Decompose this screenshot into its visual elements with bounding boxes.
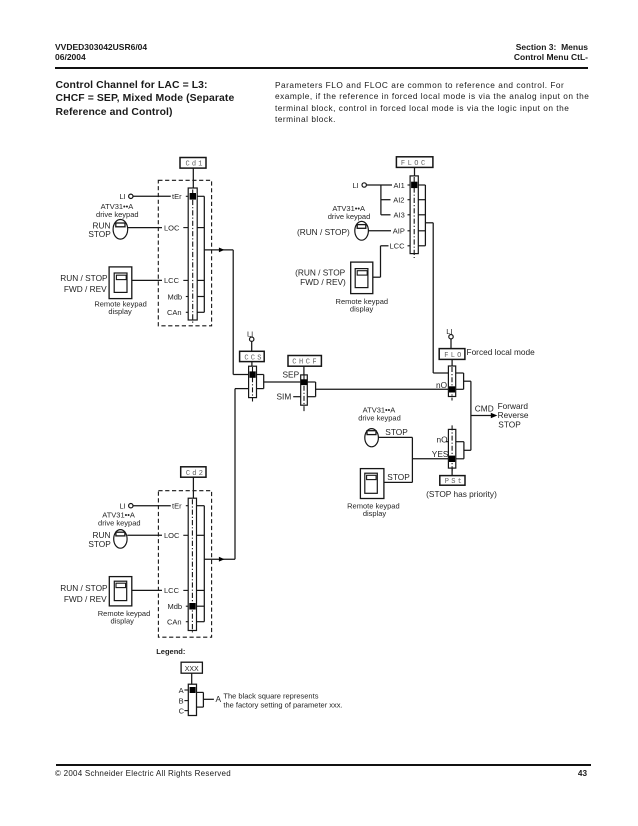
svg-text:A: A [216,694,222,704]
svg-text:CAn: CAn [167,308,182,317]
svg-text:the factory setting of paramet: the factory setting of parameter xxx. [223,700,342,709]
body paragraph [275,80,605,125]
svg-text:C: C [179,706,185,715]
svg-text:FLO: FLO [444,352,463,360]
factory setting square FLO nO [449,386,455,392]
pin LCC (Cd2) [164,586,180,595]
svg-text:SIM: SIM [277,392,292,402]
pin AI3 [394,211,411,220]
svg-text:FWD / REV: FWD / REV [64,284,107,294]
output bracket PSt [456,442,464,459]
parameter box XXX [181,662,202,673]
wire PSt output to CMD node [464,416,471,451]
wire keypad to LOC [128,227,189,229]
wire FLOC box to selector [414,167,416,177]
footer left [55,769,231,778]
remote keypad display icon (Cd1) [109,267,132,299]
label ATV31 keypad (STOP) [358,406,401,423]
svg-text:display: display [108,307,132,316]
svg-text:(RUN / STOP: (RUN / STOP [295,268,346,278]
wire LI to CCS box [251,341,253,351]
svg-text:tEr: tEr [172,192,182,201]
svg-text:AI2: AI2 [393,196,404,205]
pin AIP [393,227,410,236]
wire FLOC output down to FLO [425,223,448,373]
parameter box Cd2 [181,467,206,478]
label remote keypad display (STOP) [347,502,400,519]
pin YES [432,449,449,459]
svg-text:drive keypad: drive keypad [358,413,401,422]
selector switch Cd2 [188,498,196,634]
wire Cd2 output up to CCS [204,557,235,562]
drive keypad icon (Cd1) [113,220,128,240]
svg-text:STOP: STOP [88,229,111,239]
svg-text:Mdb: Mdb [168,292,183,301]
label RUN/STOP FWD/REV (Cd2) [60,583,108,604]
remote keypad display icon (FLOC) [351,262,373,294]
label ATV31 keypad (Cd1) [96,202,139,219]
svg-text:Cd2: Cd2 [186,470,205,478]
pin LOC (Cd2) [164,531,180,540]
svg-text:LCC: LCC [164,276,180,285]
svg-text:Legend:: Legend: [156,647,185,656]
wire remote display to LCC (FLOC) [373,246,389,277]
label Forward Reverse STOP [498,401,529,429]
svg-text:AIP: AIP [393,227,405,236]
remote keypad display icon (Cd2) [109,577,132,606]
pin LCC [164,276,180,285]
pin Mdb (Cd2) [168,602,189,611]
selector switch PSt [448,425,455,471]
svg-text:LCC: LCC [164,586,180,595]
svg-text:display: display [350,304,374,313]
node LI (Cd1) [120,192,134,201]
wire LI to tEr [133,195,188,197]
svg-text:Cd1: Cd1 [186,161,205,169]
pin AI1 [394,181,411,190]
svg-text:XXX: XXX [185,666,199,673]
wire YES input [412,458,448,460]
pin SEP [283,370,300,380]
svg-text:LOC: LOC [164,224,180,233]
output bracket FLO [456,373,464,389]
svg-text:drive keypad: drive keypad [96,210,139,219]
label RUN STOP (Cd2) [88,530,111,549]
svg-text:tEr: tEr [172,502,182,511]
svg-text:The black square represents: The black square represents [223,691,318,700]
factory setting square CCS [250,371,256,377]
selector switch FLOC [410,176,418,258]
svg-text:LI: LI [120,192,126,201]
wire CHCF box to selector [303,366,305,375]
pin B [179,696,189,705]
svg-text:LI: LI [120,502,126,511]
footer rule [56,764,591,765]
label (RUN / STOP FWD / REV) [295,268,346,288]
factory setting square FLOC AI1 [411,182,417,188]
wire LI to AI1 [367,184,393,186]
drive keypad icon (Cd2) [114,530,127,549]
svg-text:display: display [363,509,387,518]
output bracket CHCF [307,382,315,397]
pin tEr [172,192,182,201]
parameter box Cd1 [180,158,206,169]
svg-text:STOP: STOP [88,539,111,549]
wire CCS box to selector [251,362,253,367]
wire legend output to A [203,694,221,704]
label RUN STOP (Cd1) [88,221,111,240]
pin AI2 [393,196,410,205]
factory setting square legend A [190,687,196,693]
header right [388,42,588,63]
factory setting square at Mdb [189,603,195,610]
output bracket Cd2 [197,506,205,622]
wire remote display to LCC [132,279,188,281]
svg-text:A: A [179,686,184,695]
svg-text:drive keypad: drive keypad [328,212,371,221]
label ATV31 keypad (Cd2) [98,510,141,527]
pin CAn (Cd2) [167,618,188,627]
node LI (Cd2) [120,502,134,511]
svg-text:YES: YES [432,449,449,459]
wire keypad STOP to YES rail [379,437,413,482]
factory setting square at tEr [190,193,196,200]
wire selector to PSt box [451,468,453,476]
drive keypad icon (FLOC) [355,221,369,240]
wire CCS output to CHCF SEP [264,381,301,383]
label Legend [156,647,185,656]
svg-text:AI3: AI3 [394,211,405,220]
pin LOC [164,224,180,233]
footer page number [575,769,587,778]
output bracket CCS [257,375,264,389]
svg-text:display: display [111,617,135,626]
selector switch legend [188,684,196,715]
pin nO (FLO) [436,380,448,390]
svg-text:LOC: LOC [164,531,180,540]
wire Cd1 output [204,248,248,375]
label remote keypad display (Cd2) [98,609,151,625]
pin SIM [277,392,301,402]
svg-text:RUN / STOP: RUN / STOP [60,273,108,283]
label STOP (keypad) [385,427,408,437]
node LI (FLO) [446,327,453,339]
wire remote display to LCC (Cd2) [132,589,188,591]
pin C [179,706,189,715]
svg-text:drive keypad: drive keypad [98,518,141,527]
output bracket FLOC [418,185,425,246]
selector switch CHCF [301,375,308,412]
svg-text:CHCF: CHCF [292,359,319,367]
wire LI bracket to AI2 AI3 [381,185,391,215]
wire LI to FLO box [450,339,452,349]
svg-text:nO: nO [437,434,449,444]
wire remote STOP to YES rail [384,481,413,483]
pin A [179,686,189,695]
wire CCS lower input from Cd2 [235,389,249,560]
header left [55,42,147,63]
drive keypad icon (STOP) [365,429,379,447]
selector switch Cd1 [188,188,197,324]
wire keypad to LOC (Cd2) [127,534,188,536]
svg-text:STOP: STOP [498,419,521,429]
wire Cd1 box to selector [192,168,194,189]
svg-text:AI1: AI1 [394,181,405,190]
pin CAn [167,308,188,317]
remote keypad display icon (STOP) [360,469,384,499]
factory setting square CHCF SEP [301,379,307,385]
wire FLO box to selector [451,359,453,367]
svg-text:STOP: STOP [385,427,408,437]
wire Cd2 box to selector [192,477,194,499]
svg-text:SEP: SEP [283,370,300,380]
label STOP has priority [426,489,497,499]
node LI (FLOC) [353,181,367,190]
label legend text [223,691,342,709]
pin Mdb [168,292,189,301]
output bracket legend [197,692,204,707]
parameter box CCS [240,351,265,362]
svg-text:FWD / REV): FWD / REV) [300,277,346,287]
label RUN/STOP FWD/REV (Cd1) [60,273,108,294]
wire LI to tEr (Cd2) [133,505,188,507]
wire XXX box to selector [191,673,193,684]
svg-text:Forced local mode: Forced local mode [467,347,536,357]
svg-text:B: B [179,696,184,705]
dashed boundary box Cd2 [158,491,211,638]
svg-text:(STOP has priority): (STOP has priority) [426,489,497,499]
svg-text:FWD / REV: FWD / REV [64,594,107,604]
parameter box FLOC [396,157,433,168]
label ATV31 keypad (FLOC) [328,204,371,221]
svg-text:(RUN / STOP): (RUN / STOP) [297,227,350,237]
pin nO (PSt) [437,434,449,444]
parameter box CHCF [288,356,321,367]
node CMD arrow [471,404,497,419]
output bracket Cd1 [197,196,204,312]
label remote keypad display (FLOC) [336,297,389,313]
label (RUN / STOP) [297,227,350,237]
title [56,79,235,119]
svg-text:nO: nO [436,380,448,390]
svg-text:LI: LI [353,181,359,190]
svg-text:Mdb: Mdb [168,602,183,611]
parameter box PSt [440,476,465,486]
svg-text:CMD: CMD [475,404,494,414]
wire CHCF output to FLO nO [316,388,449,390]
svg-text:PSt: PSt [445,478,464,486]
pin tEr (Cd2) [172,502,182,511]
wire keypad to AIP [369,230,392,232]
node LI (CCS) [247,329,254,341]
wire FLO output to CMD node [464,381,471,415]
header rule [55,67,588,69]
factory setting square YES [449,456,455,462]
label Forced local mode [467,347,536,357]
parameter box FLO [439,349,465,360]
label remote keypad display (Cd1) [94,300,147,316]
selector switch FLO [448,366,455,401]
svg-text:RUN / STOP: RUN / STOP [60,583,108,593]
dashed boundary box Cd1 [158,180,211,325]
svg-text:LCC: LCC [390,242,406,251]
svg-text:STOP: STOP [387,472,410,482]
label STOP (remote) [387,472,410,482]
svg-text:CAn: CAn [167,618,182,627]
pin LCC (FLOC) [390,242,411,251]
svg-text:CCS: CCS [244,354,263,362]
selector switch CCS [249,366,257,401]
svg-text:FLOC: FLOC [401,160,428,168]
